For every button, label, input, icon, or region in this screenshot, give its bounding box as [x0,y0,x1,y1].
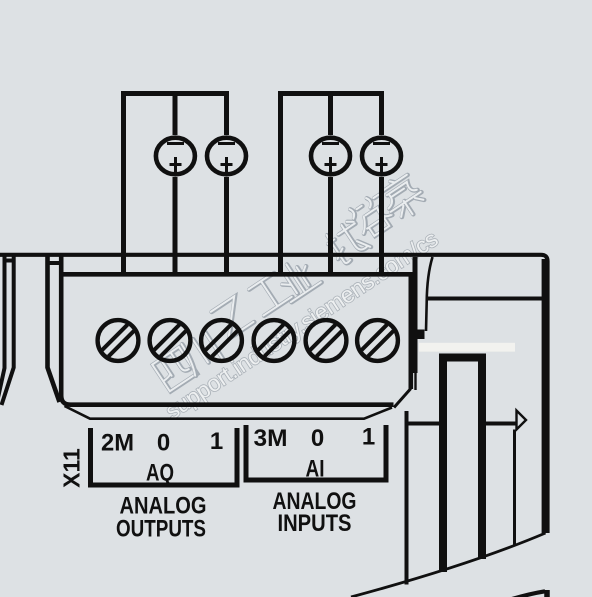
svg-text:AQ: AQ [146,460,174,487]
svg-text:X11: X11 [59,448,85,488]
svg-text:0: 0 [311,425,324,452]
svg-text:1: 1 [362,424,375,451]
svg-text:OUTPUTS: OUTPUTS [116,515,206,542]
svg-text:INPUTS: INPUTS [278,510,352,537]
svg-text:3M: 3M [254,425,288,452]
svg-text:1: 1 [210,428,223,455]
svg-text:0: 0 [157,430,170,457]
svg-text:2M: 2M [101,430,134,457]
svg-text:AI: AI [306,456,325,483]
